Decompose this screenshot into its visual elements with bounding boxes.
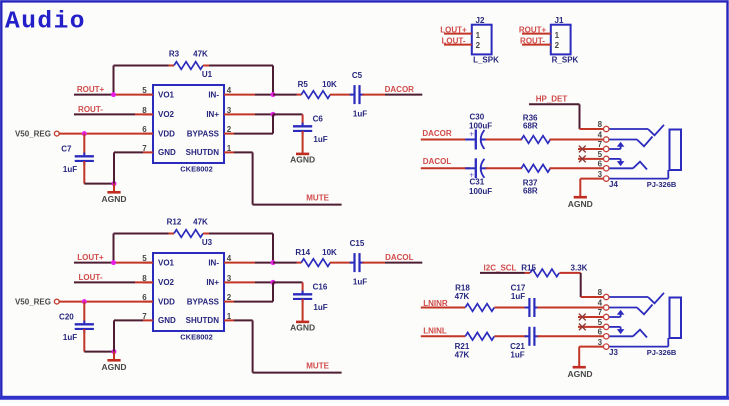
svg-text:4: 4 xyxy=(227,86,232,95)
svg-text:R14: R14 xyxy=(295,248,310,257)
svg-text:IN+: IN+ xyxy=(206,110,219,119)
capacitor C7 1uF xyxy=(61,134,94,184)
op-amp U1 CKE8002 xyxy=(153,70,224,174)
ground AGND xyxy=(290,322,315,333)
wire ROUT- to VO2 xyxy=(74,113,135,115)
resistor R21 47K xyxy=(455,333,495,360)
svg-text:1uF: 1uF xyxy=(353,110,367,119)
resistor R18 47K xyxy=(455,284,495,312)
svg-text:3: 3 xyxy=(598,170,603,179)
pin 3 J4 xyxy=(604,176,609,181)
pin 8 J4 xyxy=(604,126,609,131)
wire GND pin 7 run xyxy=(114,319,143,321)
wire rail left vertical net LOUT+ xyxy=(113,234,115,263)
svg-text:4: 4 xyxy=(598,131,603,140)
wire rail left horizontal xyxy=(114,233,169,235)
svg-text:DACOL: DACOL xyxy=(385,253,414,262)
svg-text:MUTE: MUTE xyxy=(306,194,329,203)
wire IN+ to C6 xyxy=(273,113,303,115)
pin 3 U1 xyxy=(224,113,234,115)
svg-text:V50_REG: V50_REG xyxy=(15,129,51,138)
pin 8 U3 xyxy=(143,281,153,283)
terminal V50_REG xyxy=(54,131,59,136)
no-connect X pin 7 xyxy=(579,314,586,321)
capacitor C16 1uF xyxy=(293,283,328,321)
svg-text:C31: C31 xyxy=(470,178,485,187)
svg-text:LOUT+: LOUT+ xyxy=(77,253,104,262)
svg-text:GND: GND xyxy=(158,316,176,325)
ground AGND xyxy=(101,184,126,204)
wire SHUTDN to MUTE xyxy=(234,319,253,321)
svg-text:HP_DET: HP_DET xyxy=(536,95,568,104)
svg-text:DACOL: DACOL xyxy=(423,157,452,166)
svg-text:AGND: AGND xyxy=(567,369,592,379)
pin 7 J3 xyxy=(604,314,609,319)
resistor R3 47K xyxy=(169,50,208,70)
wire IN- to R5 xyxy=(273,94,297,96)
wire R14 to C15 xyxy=(330,262,352,264)
wire C31 to R37 xyxy=(486,167,523,169)
J3 tip contact pin 8 xyxy=(609,293,664,304)
svg-text:VO1: VO1 xyxy=(158,258,175,267)
svg-text:3: 3 xyxy=(598,338,603,347)
wire C15 to DACOL xyxy=(362,262,385,264)
J4 contact pin 6 xyxy=(609,162,647,170)
capacitor C15 1uF xyxy=(350,239,368,287)
capacitor C21 1uF xyxy=(510,327,539,360)
wire C17 to J3 pin 4 xyxy=(537,307,603,309)
svg-text:CKE8002: CKE8002 xyxy=(180,333,213,342)
wire IN+ to junction xyxy=(234,281,255,283)
svg-text:1: 1 xyxy=(555,31,560,40)
svg-text:2: 2 xyxy=(227,125,232,134)
resistor R14 10K xyxy=(295,248,337,266)
J3 sleeve pin 3 line xyxy=(609,338,668,347)
svg-text:8: 8 xyxy=(598,120,603,129)
wire I2C_SCL to R15 xyxy=(480,272,525,274)
svg-text:1: 1 xyxy=(227,312,232,321)
pin 5 U1 xyxy=(143,94,153,96)
svg-text:C15: C15 xyxy=(350,239,365,248)
pin 5 J3 xyxy=(604,324,609,329)
wire SHUTDN to MUTE xyxy=(234,151,253,153)
wire pin 5 stub J4 xyxy=(578,158,603,160)
svg-text:C7: C7 xyxy=(61,145,72,154)
svg-text:7: 7 xyxy=(598,140,603,149)
svg-text:100uF: 100uF xyxy=(469,122,492,131)
J4 sleeve pin 3 line xyxy=(609,170,668,179)
J4 contact pin 4 xyxy=(609,137,653,147)
svg-text:VDD: VDD xyxy=(158,297,175,306)
wire V50_REG to VDD xyxy=(59,133,153,135)
wire GND pin 7 run xyxy=(114,151,143,153)
wire rail right horizontal xyxy=(203,233,209,235)
wire J3 pin 3 to ground xyxy=(579,346,603,348)
connector J3 PJ-326B body xyxy=(609,298,681,357)
junction GND net xyxy=(112,181,117,186)
svg-text:8: 8 xyxy=(142,274,147,283)
no-connect X pin 5 xyxy=(579,156,586,163)
svg-text:47K: 47K xyxy=(455,292,470,301)
svg-text:BYPASS: BYPASS xyxy=(187,297,220,306)
wire MUTE horizontal xyxy=(253,372,342,374)
wire IN- to junction xyxy=(234,262,255,264)
svg-text:R_SPK: R_SPK xyxy=(552,56,579,65)
svg-text:10K: 10K xyxy=(322,248,337,257)
wire DACOR to C30 xyxy=(421,139,471,141)
capacitor C20 1uF xyxy=(59,302,94,352)
wire BYPASS to IN+ xyxy=(234,133,273,135)
wire LNINL to R21 xyxy=(421,335,466,337)
svg-text:100uF: 100uF xyxy=(469,187,492,196)
svg-text:IN-: IN- xyxy=(208,90,219,99)
terminal V50_REG xyxy=(54,299,59,304)
wire DACOL to C31 xyxy=(421,167,471,169)
wire LOUT- to J2 pin 2 xyxy=(444,44,472,46)
svg-text:AGND: AGND xyxy=(290,155,315,165)
junction node LOUT+ xyxy=(111,260,116,265)
junction node ROUT+ xyxy=(111,92,116,97)
connector J2 L_SPK xyxy=(472,16,499,65)
svg-text:8: 8 xyxy=(142,106,147,115)
svg-text:C20: C20 xyxy=(59,313,74,322)
wire C21 to J3 pin 6 xyxy=(537,335,603,337)
wire ROUT+ to J1 pin 1 xyxy=(522,33,551,35)
junction V50_REG xyxy=(82,299,87,304)
wire IN- to R14 xyxy=(273,262,297,264)
svg-text:C30: C30 xyxy=(470,113,485,122)
svg-text:7: 7 xyxy=(142,312,147,321)
pin 4 J4 xyxy=(604,137,609,142)
svg-text:1uF: 1uF xyxy=(63,165,77,174)
svg-text:6: 6 xyxy=(142,293,147,302)
svg-text:MUTE: MUTE xyxy=(306,362,329,371)
wire MUTE vertical xyxy=(252,320,254,372)
pin 3 J3 xyxy=(604,344,609,349)
svg-text:1: 1 xyxy=(476,31,481,40)
J3 switch arrow pin 7 xyxy=(609,310,624,317)
svg-text:3.3K: 3.3K xyxy=(571,263,588,272)
pin 1 U3 xyxy=(224,319,234,321)
capacitor C30 100uF xyxy=(465,113,492,150)
svg-text:R3: R3 xyxy=(169,50,180,59)
svg-text:IN+: IN+ xyxy=(206,278,219,287)
svg-text:5: 5 xyxy=(142,86,147,95)
wire LOUT- to VO2 xyxy=(74,281,135,283)
wire IN+ to C16 xyxy=(273,281,303,283)
no-connect X pin 7 xyxy=(579,146,586,153)
junction IN+ xyxy=(271,280,276,285)
wire pin 8 stub J3 xyxy=(581,296,604,298)
J4 tip contact pin 8 xyxy=(609,125,664,136)
svg-text:AGND: AGND xyxy=(101,194,126,204)
svg-text:LNINL: LNINL xyxy=(423,327,447,336)
wire C7 bottom to GND net xyxy=(84,183,114,185)
svg-text:C16: C16 xyxy=(313,283,328,292)
wire MUTE vertical xyxy=(252,152,254,204)
ground AGND xyxy=(290,154,315,165)
pin 7 U3 xyxy=(143,319,153,321)
ground AGND J4 xyxy=(568,197,593,209)
wire C30 to R36 xyxy=(486,139,523,141)
svg-text:1uF: 1uF xyxy=(510,351,524,360)
wire R5 to C5 xyxy=(330,94,352,96)
pin 7 J4 xyxy=(604,146,609,151)
svg-text:4: 4 xyxy=(227,254,232,263)
svg-text:1uF: 1uF xyxy=(313,135,327,144)
svg-text:1uF: 1uF xyxy=(511,292,525,301)
wire BYPASS to IN+ xyxy=(234,301,273,303)
svg-text:10K: 10K xyxy=(322,80,337,89)
svg-text:V50_REG: V50_REG xyxy=(15,297,51,306)
J3 switch arrow pin 5 xyxy=(609,327,624,334)
svg-text:BYPASS: BYPASS xyxy=(187,129,220,138)
J4 switch arrow pin 5 xyxy=(609,159,624,166)
svg-text:J1: J1 xyxy=(555,16,564,25)
wire LNINR to R18 xyxy=(421,307,466,309)
wire HP_DET vertical to pin 8 xyxy=(579,104,581,129)
capacitor C31 100uF xyxy=(465,158,492,196)
svg-text:1uF: 1uF xyxy=(353,278,367,287)
junction IN+ xyxy=(271,112,276,117)
svg-text:R12: R12 xyxy=(167,218,182,227)
wire rail left horizontal xyxy=(114,65,169,67)
wire pin 5 stub J3 xyxy=(578,326,603,328)
svg-text:GND: GND xyxy=(158,148,176,157)
svg-text:AGND: AGND xyxy=(290,323,315,333)
junction GND net xyxy=(112,349,117,354)
svg-text:1uF: 1uF xyxy=(313,303,327,312)
wire rail left vertical net ROUT+ xyxy=(113,66,115,95)
svg-text:47K: 47K xyxy=(193,50,208,59)
wire R18 to C17 xyxy=(494,307,527,309)
svg-text:8: 8 xyxy=(598,288,603,297)
svg-text:R5: R5 xyxy=(298,80,309,89)
wire ROUT+ to VO1 xyxy=(74,94,114,96)
wire C20 bottom to GND net xyxy=(84,351,114,353)
J4 switch arrow pin 7 xyxy=(609,142,624,149)
wire ROUT- to J1 pin 2 xyxy=(522,44,551,46)
svg-text:PJ-326B: PJ-326B xyxy=(647,348,677,357)
svg-text:2: 2 xyxy=(555,41,560,50)
pin 2 U3 xyxy=(224,301,234,303)
wire MUTE horizontal xyxy=(253,204,342,206)
svg-text:Audio: Audio xyxy=(5,9,86,36)
wire J4 pin 3 to ground xyxy=(580,178,603,180)
capacitor C17 1uF xyxy=(511,284,540,318)
pin 4 U1 xyxy=(224,94,234,96)
svg-text:AGND: AGND xyxy=(101,362,126,372)
J3 contact pin 4 xyxy=(609,305,653,315)
ground AGND xyxy=(101,352,126,372)
svg-text:J2: J2 xyxy=(476,16,485,25)
no-connect X pin 5 xyxy=(579,324,586,331)
svg-text:1: 1 xyxy=(227,144,232,153)
op-amp U3 CKE8002 xyxy=(153,238,224,342)
svg-text:2: 2 xyxy=(476,41,481,50)
pin 6 U1 xyxy=(143,133,153,135)
svg-text:AGND: AGND xyxy=(568,199,593,209)
wire rail right vertical to IN- xyxy=(272,66,274,95)
svg-text:R15: R15 xyxy=(521,263,536,272)
pin 7 U1 xyxy=(143,151,153,153)
junction V50_REG xyxy=(82,131,87,136)
svg-text:2: 2 xyxy=(227,293,232,302)
svg-text:68R: 68R xyxy=(523,122,538,131)
ground AGND J3 xyxy=(567,367,592,379)
svg-text:47K: 47K xyxy=(455,351,470,360)
wire R21 to C21 xyxy=(494,335,527,337)
svg-text:47K: 47K xyxy=(193,218,208,227)
wire pin 8 stub J4 xyxy=(580,128,604,130)
svg-text:C5: C5 xyxy=(352,71,363,80)
svg-text:SHUTDN: SHUTDN xyxy=(186,148,220,157)
resistor R12 47K xyxy=(167,218,208,238)
svg-text:PJ-326B: PJ-326B xyxy=(647,180,677,189)
svg-text:6: 6 xyxy=(598,328,603,337)
wire HP_DET horizontal xyxy=(529,103,580,105)
capacitor C5 1uF xyxy=(350,71,368,119)
svg-text:3: 3 xyxy=(227,106,232,115)
svg-text:1uF: 1uF xyxy=(63,333,77,342)
pin 8 J3 xyxy=(604,294,609,299)
svg-text:3: 3 xyxy=(227,274,232,283)
svg-text:LOUT-: LOUT- xyxy=(79,273,103,282)
wire R36 to J4 pin 4 xyxy=(550,139,604,141)
svg-text:SHUTDN: SHUTDN xyxy=(186,316,220,325)
wire rail right horizontal xyxy=(203,65,209,67)
connector J1 R_SPK xyxy=(551,16,579,65)
pin 4 J3 xyxy=(604,305,609,310)
wire LOUT+ to J2 pin 1 xyxy=(444,33,472,35)
resistor R36 68R xyxy=(521,114,550,144)
resistor R5 10K xyxy=(298,80,337,98)
svg-text:5: 5 xyxy=(598,318,603,327)
svg-text:J3: J3 xyxy=(609,348,618,357)
pin 6 U3 xyxy=(143,301,153,303)
svg-text:VO2: VO2 xyxy=(158,278,175,287)
svg-text:IN-: IN- xyxy=(208,258,219,267)
pin 1 U1 xyxy=(224,151,234,153)
resistor R15 3.3K xyxy=(521,263,587,276)
pin 8 U1 xyxy=(143,113,153,115)
wire C5 to DACOR xyxy=(362,94,385,96)
svg-text:ROUT+: ROUT+ xyxy=(77,85,105,94)
svg-text:VO2: VO2 xyxy=(158,110,175,119)
pin 3 U3 xyxy=(224,281,234,283)
svg-text:U1: U1 xyxy=(202,70,213,79)
wire R15 to J3 pin 8 xyxy=(559,272,580,274)
wire IN+ to junction xyxy=(234,113,255,115)
wire pin 7 stub J4 xyxy=(578,148,603,150)
pin 4 U3 xyxy=(224,262,234,264)
resistor R37 68R xyxy=(521,165,550,196)
svg-text:VDD: VDD xyxy=(158,129,175,138)
pin 5 U3 xyxy=(143,262,153,264)
wire pin 7 stub J3 xyxy=(578,316,603,318)
svg-text:DACOR: DACOR xyxy=(422,129,452,138)
svg-text:C6: C6 xyxy=(313,115,324,124)
capacitor C6 1uF xyxy=(293,115,328,153)
svg-text:5: 5 xyxy=(598,150,603,159)
connector J4 PJ-326B body xyxy=(609,130,681,189)
wire R37 to J4 pin 6 xyxy=(550,167,604,169)
svg-text:68R: 68R xyxy=(523,187,538,196)
svg-text:L_SPK: L_SPK xyxy=(473,56,499,65)
pin 2 U1 xyxy=(224,133,234,135)
pin 6 J3 xyxy=(604,334,609,339)
svg-text:CKE8002: CKE8002 xyxy=(180,165,213,174)
svg-text:7: 7 xyxy=(598,308,603,317)
svg-text:DACOR: DACOR xyxy=(385,85,415,94)
svg-text:4: 4 xyxy=(598,299,603,308)
svg-text:5: 5 xyxy=(142,254,147,263)
svg-text:ROUT-: ROUT- xyxy=(78,105,103,114)
wire IN- to junction xyxy=(234,94,255,96)
junction IN- xyxy=(271,92,276,97)
wire V50_REG to VDD xyxy=(59,301,153,303)
svg-text:U3: U3 xyxy=(202,238,213,247)
pin 6 J4 xyxy=(604,166,609,171)
svg-text:6: 6 xyxy=(142,125,147,134)
svg-text:7: 7 xyxy=(142,144,147,153)
svg-text:J4: J4 xyxy=(609,180,618,189)
J3 contact pin 6 xyxy=(609,330,647,338)
svg-text:I2C_SCL: I2C_SCL xyxy=(484,264,517,273)
pin 5 J4 xyxy=(604,156,609,161)
junction IN- xyxy=(271,260,276,265)
svg-text:6: 6 xyxy=(598,160,603,169)
wire rail right vertical to IN- xyxy=(272,234,274,263)
wire LOUT+ to VO1 xyxy=(74,262,114,264)
svg-text:VO1: VO1 xyxy=(158,90,175,99)
